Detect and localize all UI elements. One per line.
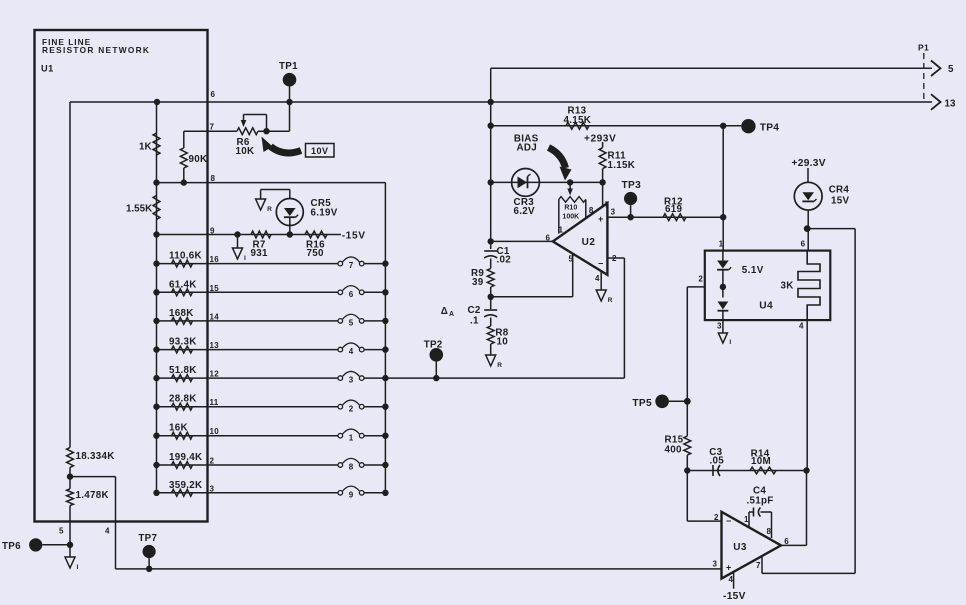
svg-text:6: 6 bbox=[801, 240, 806, 249]
svg-text:10V: 10V bbox=[311, 146, 329, 156]
svg-text:7: 7 bbox=[210, 123, 215, 132]
svg-text:10: 10 bbox=[210, 427, 220, 436]
svg-text:2: 2 bbox=[210, 457, 215, 466]
svg-text:R: R bbox=[497, 362, 502, 369]
svg-text:I: I bbox=[244, 255, 246, 262]
svg-text:+293V: +293V bbox=[584, 134, 616, 145]
svg-text:U1: U1 bbox=[41, 64, 54, 74]
svg-text:6: 6 bbox=[349, 290, 354, 299]
svg-text:4: 4 bbox=[595, 274, 600, 283]
svg-text:.51pF: .51pF bbox=[747, 496, 774, 507]
svg-text:28.8K: 28.8K bbox=[169, 394, 197, 405]
svg-text:R: R bbox=[608, 297, 613, 304]
svg-text:TP7: TP7 bbox=[138, 533, 157, 544]
svg-text:3: 3 bbox=[611, 208, 616, 217]
svg-text:199.4K: 199.4K bbox=[169, 452, 202, 463]
svg-text:1.15K: 1.15K bbox=[608, 160, 636, 171]
svg-text:90K: 90K bbox=[189, 154, 208, 165]
svg-text:TP3: TP3 bbox=[622, 180, 642, 191]
svg-text:TP6: TP6 bbox=[2, 541, 21, 552]
svg-text:100K: 100K bbox=[562, 214, 579, 221]
svg-text:14: 14 bbox=[210, 312, 220, 321]
svg-text:5: 5 bbox=[349, 319, 354, 328]
svg-text:+: + bbox=[726, 563, 732, 573]
svg-text:.05: .05 bbox=[710, 456, 725, 467]
svg-text:619: 619 bbox=[665, 204, 682, 215]
svg-text:RESISTOR NETWORK: RESISTOR NETWORK bbox=[42, 45, 150, 55]
svg-text:I: I bbox=[729, 339, 731, 346]
svg-text:6: 6 bbox=[211, 90, 216, 99]
svg-text:10M: 10M bbox=[751, 456, 771, 467]
svg-text:U3: U3 bbox=[733, 542, 747, 553]
svg-text:C2: C2 bbox=[468, 305, 481, 316]
svg-text:9: 9 bbox=[349, 490, 354, 499]
svg-text:-15V: -15V bbox=[723, 591, 746, 602]
svg-text:15V: 15V bbox=[831, 196, 849, 207]
svg-text:U4: U4 bbox=[759, 301, 773, 312]
svg-text:5.1V: 5.1V bbox=[742, 265, 764, 276]
svg-text:TP4: TP4 bbox=[760, 123, 780, 134]
svg-text:U2: U2 bbox=[582, 237, 596, 248]
svg-text:39: 39 bbox=[472, 277, 484, 288]
svg-text:11: 11 bbox=[210, 398, 219, 407]
svg-text:TP5: TP5 bbox=[632, 398, 652, 409]
svg-text:168K: 168K bbox=[169, 308, 194, 319]
svg-text:12: 12 bbox=[210, 370, 220, 379]
svg-text:4: 4 bbox=[799, 322, 804, 331]
svg-text:6.19V: 6.19V bbox=[311, 208, 338, 219]
svg-text:93.3K: 93.3K bbox=[169, 337, 197, 348]
svg-text:4.15K: 4.15K bbox=[564, 115, 592, 126]
svg-text:18.334K: 18.334K bbox=[76, 451, 115, 462]
svg-text:−: − bbox=[726, 516, 732, 526]
svg-text:9: 9 bbox=[210, 227, 215, 236]
svg-text:I: I bbox=[77, 564, 79, 571]
svg-text:-15V: -15V bbox=[342, 231, 366, 242]
svg-text:359.2K: 359.2K bbox=[169, 480, 202, 491]
svg-text:51.8K: 51.8K bbox=[169, 365, 197, 376]
svg-text:A: A bbox=[449, 311, 454, 318]
svg-text:3: 3 bbox=[210, 484, 215, 493]
svg-text:2: 2 bbox=[349, 404, 354, 413]
svg-text:931: 931 bbox=[251, 248, 268, 259]
svg-text:+: + bbox=[598, 214, 604, 224]
svg-text:13: 13 bbox=[945, 99, 956, 110]
svg-text:4: 4 bbox=[349, 347, 354, 356]
svg-text:TP1: TP1 bbox=[279, 61, 298, 72]
svg-text:400: 400 bbox=[665, 445, 682, 456]
svg-text:−: − bbox=[598, 259, 604, 269]
svg-text:1: 1 bbox=[349, 433, 354, 442]
svg-text:TP2: TP2 bbox=[424, 340, 443, 351]
svg-text:CR4: CR4 bbox=[829, 185, 850, 196]
svg-text:16K: 16K bbox=[169, 423, 188, 434]
svg-text:1K: 1K bbox=[139, 142, 152, 153]
svg-text:3K: 3K bbox=[781, 281, 794, 292]
svg-text:6.2V: 6.2V bbox=[514, 206, 536, 217]
svg-text:2: 2 bbox=[698, 275, 703, 284]
svg-text:.1: .1 bbox=[470, 316, 479, 327]
svg-text:5: 5 bbox=[59, 527, 64, 536]
svg-text:15: 15 bbox=[210, 284, 220, 293]
svg-text:750: 750 bbox=[307, 248, 324, 259]
svg-text:3: 3 bbox=[349, 376, 354, 385]
svg-text:ADJ: ADJ bbox=[517, 143, 538, 154]
svg-text:7: 7 bbox=[756, 561, 761, 570]
svg-text:3: 3 bbox=[717, 322, 722, 331]
svg-text:110.6K: 110.6K bbox=[169, 251, 202, 262]
svg-text:3: 3 bbox=[713, 560, 718, 569]
svg-text:7: 7 bbox=[349, 261, 354, 270]
svg-text:5: 5 bbox=[948, 64, 954, 75]
svg-text:.02: .02 bbox=[497, 255, 512, 266]
svg-text:+29.3V: +29.3V bbox=[792, 158, 826, 169]
svg-text:16: 16 bbox=[210, 255, 220, 264]
svg-text:10K: 10K bbox=[236, 146, 255, 157]
svg-text:4: 4 bbox=[105, 527, 110, 536]
svg-text:1: 1 bbox=[719, 240, 724, 249]
svg-text:R: R bbox=[267, 206, 272, 213]
svg-text:1.55K: 1.55K bbox=[126, 204, 152, 215]
svg-text:4: 4 bbox=[729, 575, 734, 584]
svg-text:8: 8 bbox=[349, 463, 354, 472]
svg-text:10: 10 bbox=[497, 337, 509, 348]
svg-text:R10: R10 bbox=[564, 205, 577, 212]
svg-text:Δ: Δ bbox=[441, 306, 448, 317]
svg-text:2: 2 bbox=[612, 254, 617, 263]
svg-text:61.4K: 61.4K bbox=[169, 279, 197, 290]
svg-text:13: 13 bbox=[210, 341, 220, 350]
svg-text:8: 8 bbox=[211, 174, 216, 183]
svg-text:P1: P1 bbox=[918, 43, 929, 53]
svg-text:1.478K: 1.478K bbox=[76, 490, 109, 501]
